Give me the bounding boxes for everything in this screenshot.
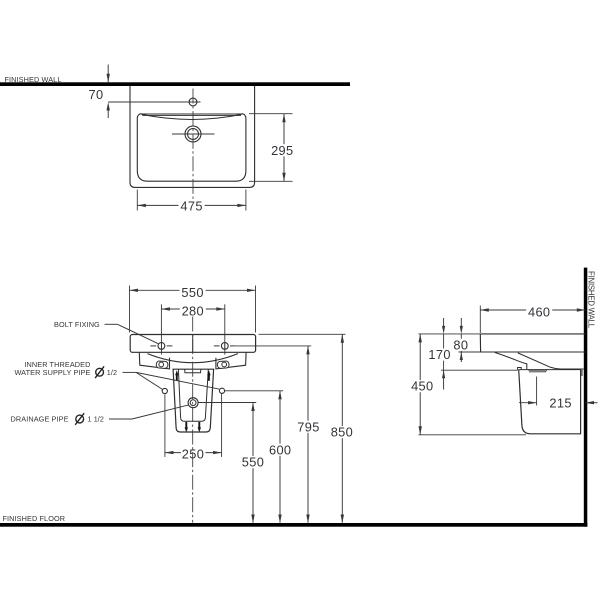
svg-text:550: 550 bbox=[242, 455, 264, 470]
svg-text:FINISHED WALL: FINISHED WALL bbox=[5, 75, 62, 84]
svg-text:70: 70 bbox=[89, 87, 104, 102]
svg-text:1 1/2: 1 1/2 bbox=[88, 415, 105, 424]
svg-text:FINISHED FLOOR: FINISHED FLOOR bbox=[3, 514, 66, 523]
svg-text:DRAINAGE PIPE: DRAINAGE PIPE bbox=[11, 415, 69, 424]
svg-text:280: 280 bbox=[182, 304, 204, 319]
svg-text:FINISHED WALL: FINISHED WALL bbox=[587, 271, 596, 329]
svg-text:1/2: 1/2 bbox=[107, 368, 117, 377]
svg-text:80: 80 bbox=[453, 337, 468, 352]
svg-text:170: 170 bbox=[428, 347, 450, 362]
svg-text:295: 295 bbox=[271, 143, 293, 158]
svg-text:450: 450 bbox=[411, 379, 433, 394]
svg-text:600: 600 bbox=[269, 442, 291, 457]
svg-text:460: 460 bbox=[528, 305, 550, 320]
svg-text:550: 550 bbox=[181, 285, 203, 300]
svg-text:850: 850 bbox=[331, 425, 353, 440]
svg-text:215: 215 bbox=[549, 395, 571, 410]
svg-text:WATER SUPPLY PIPE: WATER SUPPLY PIPE bbox=[14, 368, 90, 377]
svg-text:795: 795 bbox=[297, 419, 319, 434]
svg-text:250: 250 bbox=[182, 446, 204, 461]
svg-text:BOLT FIXING: BOLT FIXING bbox=[54, 320, 100, 329]
svg-text:475: 475 bbox=[180, 198, 202, 213]
